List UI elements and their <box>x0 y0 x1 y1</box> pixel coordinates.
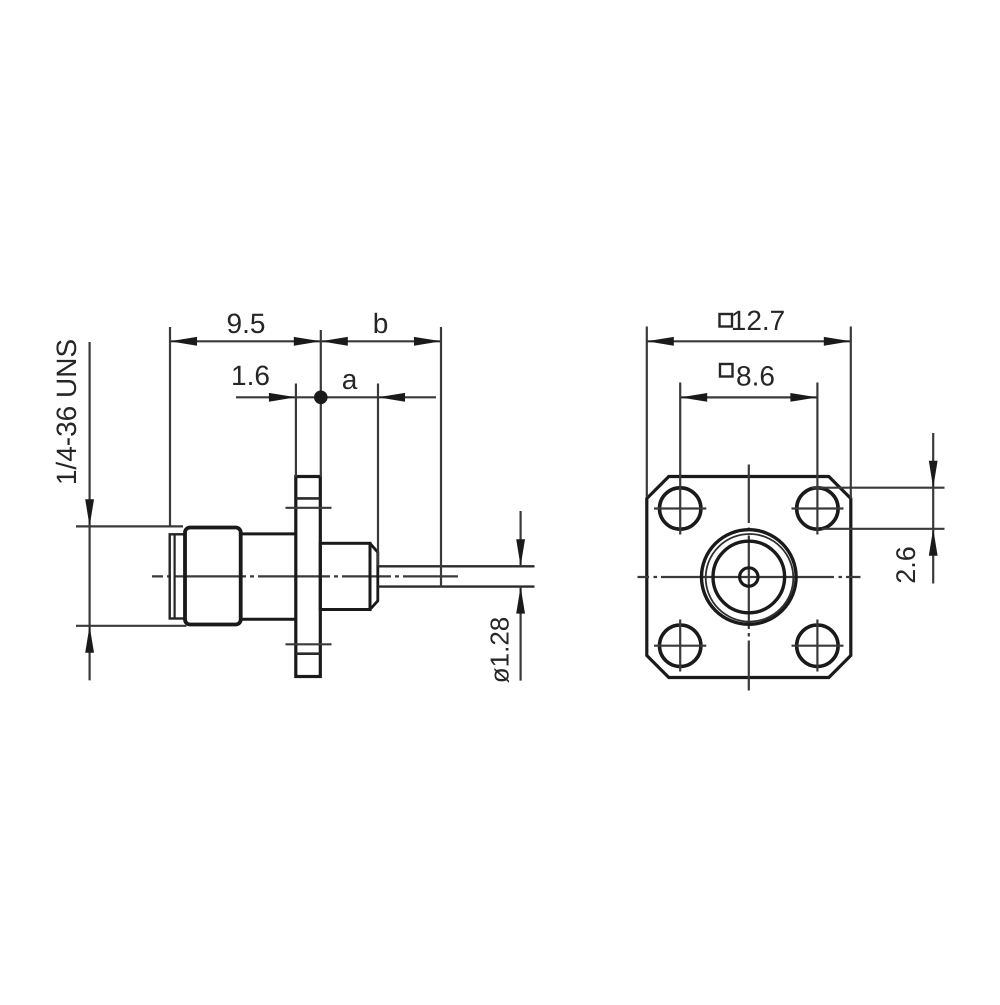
svg-text:1/4-36 UNS: 1/4-36 UNS <box>51 339 82 485</box>
flange front octagon <box>647 477 851 678</box>
hole TL h axis <box>654 507 706 509</box>
datum extension line x=321 <box>320 330 322 477</box>
pin bottom edge <box>378 585 535 587</box>
pin circle <box>740 568 758 586</box>
dim line 12.7 <box>647 340 851 342</box>
arrow 12.7 left <box>647 337 674 346</box>
arrow 2.6 up <box>929 529 938 556</box>
thread extension line top <box>76 525 183 527</box>
flange hole axis bottom <box>286 643 332 645</box>
svg-text:9.5: 9.5 <box>227 308 266 339</box>
arrow 9.5 right <box>294 337 321 346</box>
flange chamfer line top <box>296 497 321 500</box>
hole TR <box>797 488 838 529</box>
flange chamfer line bottom <box>296 652 321 655</box>
arrow 8.6 left <box>680 393 707 402</box>
dim a extension line (pin start) <box>377 384 379 566</box>
dim 9.5 extension line left <box>169 327 171 526</box>
svg-text:12.7: 12.7 <box>731 305 786 336</box>
text square 8.6 <box>720 364 733 377</box>
hole BR <box>797 625 838 666</box>
hole BL v axis <box>679 620 681 672</box>
thread arrow up <box>85 626 94 653</box>
thread dim line 1/4-36 UNS <box>88 342 90 680</box>
dim line 1.6 / a <box>236 396 436 398</box>
thread extension line bottom <box>76 625 187 627</box>
nose chamfer start line <box>369 543 372 609</box>
dim 12.7 ext right <box>850 327 852 499</box>
dim b extension line right <box>440 327 442 587</box>
svg-text:a: a <box>342 364 358 395</box>
arrow b left <box>321 337 348 346</box>
centerline <box>152 575 458 577</box>
dim 12.7 ext left <box>646 327 648 498</box>
hole TL v axis / 8.6 ext <box>679 383 681 535</box>
dim o1.28 line upper <box>519 511 521 566</box>
o1.28 arrow up <box>516 587 525 614</box>
hole BR h axis <box>792 645 844 647</box>
svg-text:8.6: 8.6 <box>736 361 775 392</box>
mid cylinder bottom <box>241 618 296 621</box>
collar (left end) <box>170 534 185 618</box>
o1.28 arrow down <box>516 539 525 566</box>
hole TL <box>660 488 701 529</box>
svg-text:1.6: 1.6 <box>231 360 270 391</box>
flange side <box>296 477 321 677</box>
arrow b right <box>414 337 441 346</box>
hole BR v axis <box>816 620 818 672</box>
dim 1.6 extension line (flange left face) <box>295 384 297 478</box>
dim line 8.6 <box>680 396 817 398</box>
flange hole axis top <box>286 507 332 509</box>
outer circle <box>702 530 797 625</box>
inner thin circle <box>706 534 794 622</box>
coupling nut <box>185 528 241 625</box>
dim 2.6 ext bottom tangent <box>822 528 945 530</box>
hole BL <box>660 625 701 666</box>
middle circle <box>713 541 785 613</box>
datum dot <box>314 391 328 405</box>
collar chamfer line <box>174 535 176 618</box>
arrow 9.5 left <box>170 337 197 346</box>
main centerline vertical <box>748 465 750 691</box>
pin top edge <box>378 565 535 567</box>
arrow 12.7 right <box>824 337 851 346</box>
hole TR v axis / 8.6 ext <box>816 383 818 535</box>
arrow a pointing left <box>378 393 405 402</box>
dim 2.6 line <box>932 433 934 584</box>
dim o1.28 line lower <box>519 587 521 681</box>
arrow 1.6 pointing right <box>269 393 296 402</box>
rear body nose <box>370 543 378 609</box>
arrow 8.6 right <box>790 393 817 402</box>
svg-text:ø1.28: ø1.28 <box>485 617 515 684</box>
hole TR h axis <box>792 507 844 509</box>
main centerline horizontal <box>638 576 861 578</box>
svg-text:2.6: 2.6 <box>891 546 921 584</box>
text square 12.7 <box>720 314 733 327</box>
hole BL h axis <box>654 645 706 647</box>
svg-text:b: b <box>373 308 389 339</box>
rear body <box>320 543 370 609</box>
arrow 2.6 down <box>929 461 938 488</box>
thread arrow down <box>85 499 94 526</box>
dim 2.6 ext top tangent <box>812 487 945 489</box>
mid cylinder top <box>241 532 296 535</box>
dim line 9.5 and b <box>170 340 441 342</box>
